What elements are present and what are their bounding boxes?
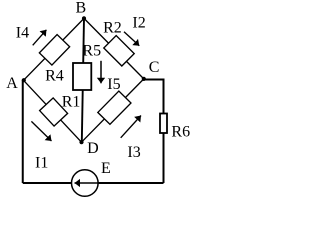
svg-text:I1: I1 xyxy=(35,154,48,171)
wire C to right rail xyxy=(144,80,164,184)
wire left rail xyxy=(22,80,24,183)
svg-text:A: A xyxy=(6,75,18,92)
wire B-D xyxy=(82,18,84,142)
node B xyxy=(82,16,86,20)
current arrow I3 xyxy=(121,116,141,138)
wire D-C xyxy=(82,79,144,142)
svg-text:R1: R1 xyxy=(62,93,81,110)
svg-text:I3: I3 xyxy=(127,144,140,161)
resistor R1 xyxy=(40,98,68,126)
svg-text:B: B xyxy=(76,0,87,17)
node C xyxy=(142,77,146,81)
current arrow I2 xyxy=(124,32,139,46)
svg-text:I5: I5 xyxy=(107,76,120,93)
wire B-C xyxy=(84,18,144,79)
resistor R5 xyxy=(73,63,91,90)
resistor R3 xyxy=(98,91,131,124)
source E xyxy=(72,170,99,197)
resistor R6 xyxy=(160,114,167,134)
svg-text:E: E xyxy=(101,160,111,177)
svg-text:I2: I2 xyxy=(132,15,145,32)
wire A-D xyxy=(24,80,82,142)
current arrow I4 xyxy=(33,30,47,46)
svg-text:D: D xyxy=(87,140,99,157)
resistor R2 xyxy=(104,36,134,66)
resistor R4 xyxy=(39,35,69,65)
svg-text:R6: R6 xyxy=(171,123,190,140)
wire A-B xyxy=(24,18,85,80)
svg-text:R4: R4 xyxy=(45,67,64,84)
current arrow I5 xyxy=(100,61,102,84)
node D xyxy=(79,140,83,144)
svg-text:R2: R2 xyxy=(103,19,122,36)
svg-text:R5: R5 xyxy=(82,43,101,60)
wire bottom xyxy=(23,182,164,184)
svg-text:I4: I4 xyxy=(16,25,29,42)
svg-text:C: C xyxy=(149,59,160,76)
node A xyxy=(22,78,26,82)
current arrow I1 xyxy=(31,121,51,141)
